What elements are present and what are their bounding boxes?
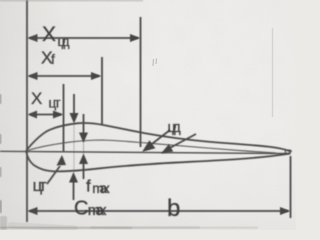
cd arrow 1 shaft bbox=[146, 130, 170, 149]
X_cd right arrowhead bbox=[130, 34, 141, 42]
vertical line at X_cd (x=140) bbox=[140, 17, 142, 147]
top edge scan border bbox=[0, 0, 143, 2]
f_max up arrow shaft bbox=[83, 161, 85, 179]
cd arrow 2 shaft bbox=[166, 134, 196, 150]
ct pointer arrowhead bbox=[57, 155, 67, 166]
dimension X_ct line bbox=[30, 114, 61, 116]
c_max up arrow shaft bbox=[73, 179, 75, 200]
faint c_max connector line bbox=[73, 123, 75, 172]
left reference vertical line bbox=[26, 0, 28, 222]
b left arrowhead bbox=[27, 207, 38, 215]
dimension X_cd line bbox=[30, 37, 138, 39]
vertical line at X_ct (x=63) bbox=[63, 84, 65, 151]
dimension X_f line bbox=[30, 75, 99, 77]
bottom-left corner smudge bbox=[0, 216, 7, 230]
arrowheads bbox=[27, 34, 291, 215]
scan artifacts: left edge marks bbox=[0, 94, 2, 213]
vertical line at X_f (x=102) bbox=[101, 57, 103, 125]
scan artifact tick bbox=[153, 59, 157, 67]
bottom edge scan border bbox=[0, 227, 132, 229]
X_cd left arrowhead bbox=[27, 34, 38, 42]
X_ct left arrowhead bbox=[28, 111, 38, 119]
f_max down arrowhead bbox=[79, 133, 88, 144]
X_ct right arrowhead bbox=[53, 111, 64, 119]
vertical line below trailing edge bbox=[290, 156, 292, 218]
f_max down arrow shaft bbox=[83, 114, 85, 136]
airfoil upper surface bbox=[26, 123, 291, 152]
faint f_max connector line bbox=[83, 143, 85, 154]
dimension b line bbox=[30, 210, 288, 212]
airfoil lower surface bbox=[26, 151, 291, 171]
ct pointer shaft bbox=[47, 166, 60, 184]
c_max down arrowhead bbox=[70, 113, 79, 124]
faint paper fold line bbox=[272, 28, 274, 117]
scan artifacts: bottom smudge bbox=[8, 222, 200, 232]
cd arrow 2 head bbox=[161, 144, 173, 154]
X_f left arrowhead bbox=[27, 72, 38, 80]
cd arrow 1 head bbox=[142, 140, 155, 152]
chord line bbox=[0, 151, 291, 153]
c_max up arrowhead bbox=[69, 172, 78, 183]
f_max up arrowhead bbox=[79, 154, 88, 165]
camber (mean) line bbox=[26, 140, 276, 153]
trailing edge loop bbox=[285, 150, 292, 154]
b right arrowhead bbox=[280, 207, 291, 215]
X_f right arrowhead bbox=[91, 72, 102, 80]
c_max down arrow shaft bbox=[73, 94, 75, 116]
